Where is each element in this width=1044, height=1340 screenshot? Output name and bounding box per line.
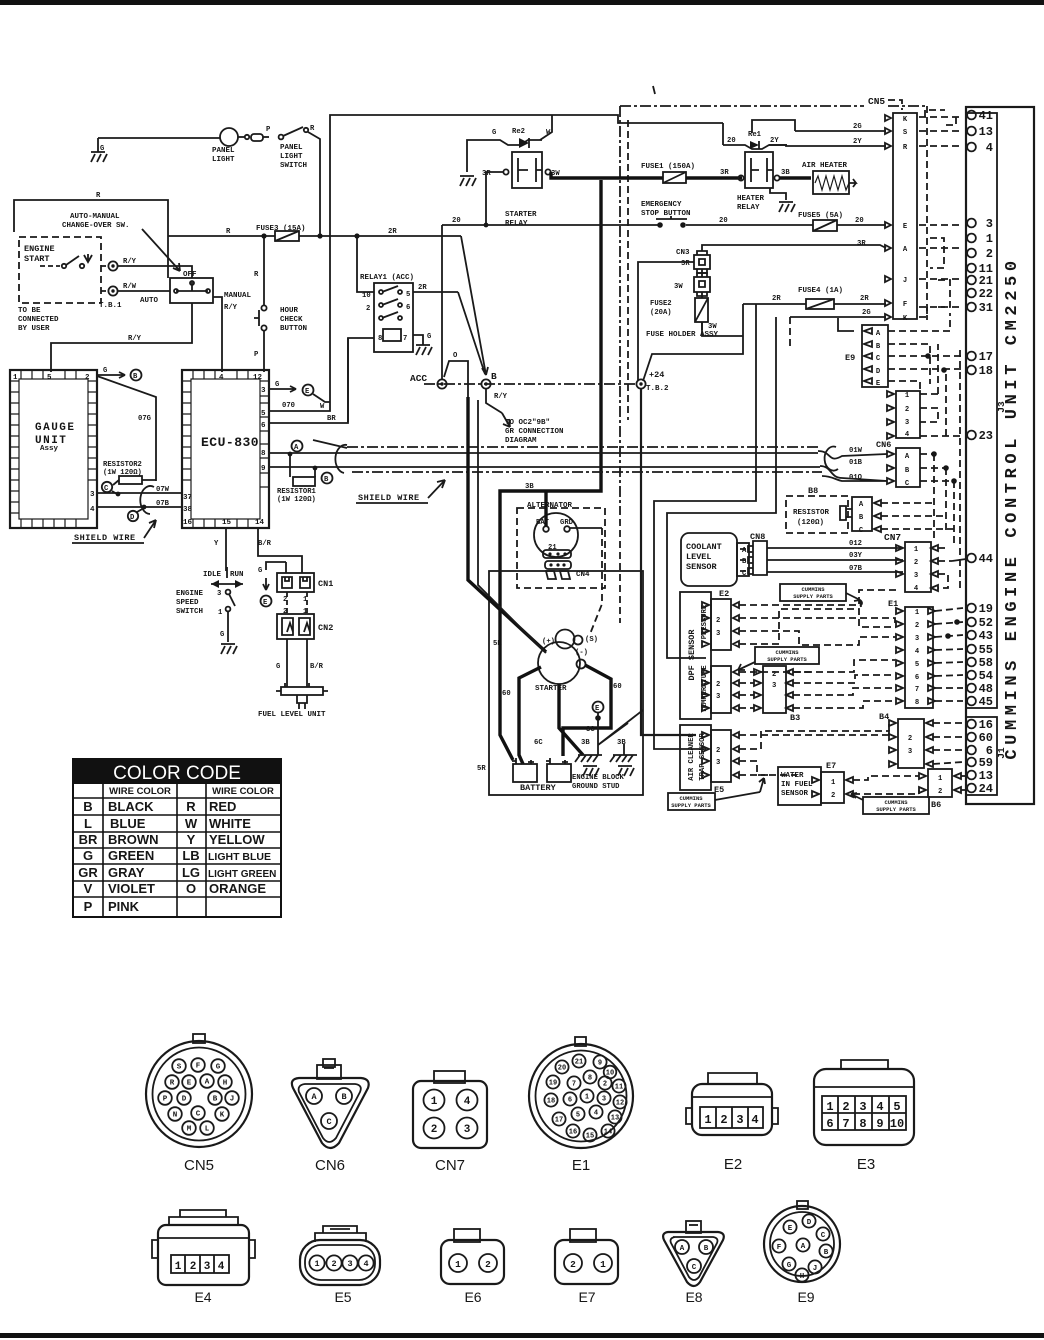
svg-text:2R: 2R bbox=[418, 284, 427, 292]
svg-text:13: 13 bbox=[611, 1115, 619, 1123]
cable twist loop bbox=[818, 451, 887, 481]
svg-text:18: 18 bbox=[979, 364, 993, 378]
svg-text:2G: 2G bbox=[853, 123, 862, 131]
svg-text:3: 3 bbox=[772, 682, 776, 690]
svg-text:17: 17 bbox=[979, 350, 993, 364]
svg-text:G: G bbox=[275, 381, 279, 389]
CN5 to J3 mating dashes bbox=[919, 110, 963, 317]
svg-text:R: R bbox=[96, 192, 101, 200]
wire 2R through fuse4 to CN5 pin F bbox=[743, 303, 886, 305]
svg-text:(1W 120Ω): (1W 120Ω) bbox=[277, 496, 316, 504]
coolant level sensor bbox=[681, 533, 749, 586]
svg-text:20: 20 bbox=[727, 137, 736, 145]
connector 4-pin (below E9) bbox=[887, 391, 920, 439]
motor starter bbox=[535, 630, 598, 694]
svg-text:2Y: 2Y bbox=[770, 137, 779, 145]
connector B6 bbox=[919, 769, 961, 810]
svg-text:R/Y: R/Y bbox=[123, 258, 137, 266]
svg-text:B/R: B/R bbox=[310, 663, 324, 671]
page top border bbox=[0, 0, 1044, 5]
svg-text:3: 3 bbox=[908, 748, 912, 756]
svg-text:Re2: Re2 bbox=[512, 128, 525, 136]
B8 mating dashes bbox=[881, 503, 954, 529]
svg-text:ACC: ACC bbox=[410, 373, 427, 384]
wire emergency line down to ACC bbox=[441, 225, 443, 379]
connector B8 3-pin bbox=[852, 497, 881, 535]
svg-text:012: 012 bbox=[849, 540, 862, 548]
svg-text:5: 5 bbox=[915, 661, 919, 669]
svg-text:RED: RED bbox=[209, 799, 236, 814]
svg-text:SUPPLY PARTS: SUPPLY PARTS bbox=[767, 656, 807, 663]
svg-text:E6: E6 bbox=[464, 1289, 481, 1305]
svg-text:5: 5 bbox=[893, 1100, 900, 1114]
wire ACC jog to feed bbox=[444, 361, 468, 397]
svg-text:YELLOW: YELLOW bbox=[209, 832, 265, 847]
CN6 mating dashes with junctions bbox=[920, 454, 954, 545]
connector E5 pictogram bbox=[300, 1226, 380, 1305]
svg-text:G: G bbox=[427, 333, 431, 341]
svg-text:E1: E1 bbox=[572, 1157, 590, 1174]
wire 20 emergency stop line bbox=[442, 224, 813, 226]
connector E8 pictogram bbox=[663, 1221, 724, 1305]
connector E2 pictogram bbox=[686, 1073, 778, 1173]
svg-text:2: 2 bbox=[190, 1261, 197, 1273]
wires B4 to J1 bbox=[933, 723, 963, 764]
svg-text:18: 18 bbox=[547, 1098, 555, 1106]
harness dashed boundary inner vertical bbox=[627, 120, 629, 420]
E9 left stub wires bbox=[838, 318, 854, 331]
svg-text:FUSE HOLDER ASSY: FUSE HOLDER ASSY bbox=[646, 331, 719, 339]
svg-text:5: 5 bbox=[576, 1112, 580, 1120]
svg-text:CN4: CN4 bbox=[576, 571, 590, 579]
svg-text:2: 2 bbox=[842, 1100, 849, 1114]
svg-text:3B: 3B bbox=[617, 739, 626, 747]
svg-text:L: L bbox=[205, 1126, 210, 1134]
svg-text:A: A bbox=[859, 501, 864, 509]
svg-text:24: 24 bbox=[979, 782, 993, 796]
4-pin mating dashes bbox=[920, 344, 963, 436]
svg-text:(S): (S) bbox=[585, 636, 598, 644]
label to OC2 connection diagram bbox=[502, 413, 564, 445]
wire 01B bbox=[296, 466, 820, 468]
svg-text:RESISTOR1: RESISTOR1 bbox=[277, 488, 317, 496]
svg-text:1: 1 bbox=[455, 1259, 461, 1270]
svg-text:CN1: CN1 bbox=[318, 579, 333, 589]
svg-text:4: 4 bbox=[218, 1261, 225, 1273]
svg-text:31: 31 bbox=[979, 301, 993, 315]
svg-text:T.B.1: T.B.1 bbox=[99, 302, 122, 310]
svg-text:6C: 6C bbox=[534, 739, 543, 747]
svg-text:RELAY: RELAY bbox=[505, 220, 528, 228]
svg-text:3B: 3B bbox=[525, 483, 534, 491]
resistor B8 dashed box bbox=[786, 486, 852, 533]
wire heater coil left supply bbox=[722, 123, 724, 145]
svg-text:COOLANT: COOLANT bbox=[686, 542, 722, 552]
starter battery solid box bbox=[489, 571, 643, 795]
svg-text:P: P bbox=[266, 126, 271, 134]
mating dashes CN1-CN2 bbox=[287, 592, 307, 614]
svg-text:21: 21 bbox=[575, 1059, 583, 1067]
svg-text:07B: 07B bbox=[156, 500, 170, 508]
svg-text:2: 2 bbox=[915, 622, 919, 630]
svg-text:G: G bbox=[100, 145, 104, 153]
svg-text:IDLE: IDLE bbox=[203, 571, 222, 579]
svg-text:3B: 3B bbox=[581, 739, 590, 747]
svg-text:2: 2 bbox=[331, 1259, 336, 1269]
svg-text:ALTERNATOR: ALTERNATOR bbox=[527, 502, 573, 510]
svg-text:B/R: B/R bbox=[258, 540, 272, 548]
svg-text:13: 13 bbox=[979, 125, 993, 139]
svg-text:R/Y: R/Y bbox=[224, 304, 238, 312]
svg-text:D: D bbox=[130, 514, 135, 522]
svg-text:2R: 2R bbox=[772, 295, 781, 303]
connector E2 (schematic) bbox=[702, 589, 739, 650]
svg-text:BLACK: BLACK bbox=[108, 799, 154, 814]
svg-text:1: 1 bbox=[826, 1100, 833, 1114]
svg-text:(-): (-) bbox=[575, 649, 588, 657]
svg-text:CN5: CN5 bbox=[184, 1157, 214, 1174]
svg-text:1: 1 bbox=[175, 1261, 182, 1273]
grid lines bbox=[73, 784, 281, 917]
wire +24 feed down bbox=[641, 389, 696, 735]
svg-text:FUSE4 (1A): FUSE4 (1A) bbox=[798, 287, 843, 295]
svg-text:16: 16 bbox=[569, 1129, 577, 1137]
svg-text:GAUGE: GAUGE bbox=[35, 422, 76, 434]
switch engine speed bbox=[176, 590, 235, 617]
svg-text:CUMMINS: CUMMINS bbox=[775, 649, 799, 656]
svg-text:HOUR: HOUR bbox=[280, 307, 299, 315]
svg-text:58: 58 bbox=[979, 656, 993, 670]
shield arc bbox=[140, 486, 154, 514]
wire ECU pin9 to line B bbox=[269, 466, 296, 468]
wire 07B gauge pin4 to ECU pin38 bbox=[97, 506, 182, 508]
svg-text:GRAY: GRAY bbox=[108, 865, 145, 880]
svg-text:17: 17 bbox=[555, 1117, 563, 1125]
wire 07W gauge pin3 to ECU pin37 bbox=[97, 492, 182, 494]
svg-text:4: 4 bbox=[905, 431, 910, 439]
svg-text:1: 1 bbox=[600, 1259, 606, 1270]
svg-text:20: 20 bbox=[719, 217, 728, 225]
svg-text:B: B bbox=[491, 371, 497, 382]
svg-text:9: 9 bbox=[876, 1117, 883, 1131]
svg-text:E7: E7 bbox=[578, 1289, 595, 1305]
svg-text:3R: 3R bbox=[857, 240, 866, 248]
svg-text:LEVEL: LEVEL bbox=[686, 552, 712, 562]
svg-text:J1: J1 bbox=[996, 747, 1007, 759]
svg-text:20: 20 bbox=[558, 1065, 566, 1073]
svg-text:ECU-830: ECU-830 bbox=[201, 435, 259, 450]
svg-text:52: 52 bbox=[979, 616, 993, 630]
bus dash-dot 24V bbox=[424, 383, 636, 385]
svg-text:R/Y: R/Y bbox=[128, 335, 142, 343]
svg-text:G: G bbox=[216, 1064, 221, 1072]
ECU-830 box with ladder border bbox=[182, 370, 269, 528]
svg-text:D: D bbox=[807, 1219, 812, 1227]
svg-text:A: A bbox=[876, 330, 881, 338]
harness dashed boundary top bbox=[620, 105, 927, 107]
shield arc mid bbox=[335, 445, 347, 473]
svg-text:W: W bbox=[185, 816, 198, 831]
svg-text:7: 7 bbox=[403, 335, 407, 343]
harness dashed boundary left bbox=[619, 106, 621, 508]
svg-text:G: G bbox=[103, 367, 107, 375]
svg-text:K: K bbox=[903, 315, 908, 323]
svg-text:R/Y: R/Y bbox=[494, 393, 508, 401]
connector E1 (schematic) bbox=[888, 599, 935, 708]
svg-text:1: 1 bbox=[431, 1096, 438, 1108]
wire alternator GRD dash to starter bbox=[570, 527, 602, 529]
svg-text:E9: E9 bbox=[797, 1289, 814, 1305]
long dashed loop bus right side bbox=[959, 350, 961, 590]
wire thick fuse1 to heater relay bbox=[686, 176, 742, 179]
svg-text:F: F bbox=[196, 1063, 201, 1071]
svg-text:F: F bbox=[903, 301, 907, 309]
ground (heater relay) bbox=[770, 188, 786, 200]
wire manual to ECU pin4 bbox=[213, 297, 222, 372]
svg-text:CN7: CN7 bbox=[435, 1157, 465, 1174]
svg-text:G: G bbox=[492, 129, 496, 137]
svg-text:WIRE COLOR: WIRE COLOR bbox=[109, 786, 171, 797]
connector CN5 (schematic strip) bbox=[885, 113, 917, 323]
svg-text:B: B bbox=[324, 476, 329, 484]
svg-text:BROWN: BROWN bbox=[108, 832, 159, 847]
svg-text:19: 19 bbox=[979, 602, 993, 616]
wire ECU pin14 down to CN1 bbox=[258, 528, 302, 573]
svg-text:E: E bbox=[187, 1080, 192, 1088]
svg-text:3: 3 bbox=[986, 217, 993, 231]
svg-text:3: 3 bbox=[204, 1261, 211, 1273]
svg-text:SUPPLY PARTS: SUPPLY PARTS bbox=[671, 802, 711, 809]
svg-text:CUMMINS ENGINE CONTROL UNIT CM: CUMMINS ENGINE CONTROL UNIT CM2250 bbox=[1003, 256, 1022, 759]
svg-text:10: 10 bbox=[362, 292, 371, 300]
svg-text:E: E bbox=[263, 599, 268, 607]
switch panel light switch bbox=[266, 125, 315, 170]
svg-text:10: 10 bbox=[606, 1070, 614, 1078]
alternator bbox=[527, 502, 590, 579]
gauge unit box with ladder border bbox=[10, 370, 97, 528]
connector E5 bbox=[702, 730, 739, 795]
svg-text:2: 2 bbox=[716, 617, 720, 625]
ECU outer box CM2250 bbox=[966, 107, 1034, 804]
connector E9 (schematic) bbox=[862, 325, 888, 388]
switch auto-manual change-over bbox=[170, 271, 252, 303]
svg-text:3: 3 bbox=[859, 1100, 866, 1114]
svg-text:10: 10 bbox=[890, 1117, 904, 1131]
svg-text:PANEL: PANEL bbox=[280, 144, 303, 152]
svg-text:2: 2 bbox=[603, 1081, 607, 1089]
svg-text:A: A bbox=[680, 1245, 685, 1253]
svg-text:Y: Y bbox=[214, 540, 219, 548]
svg-text:60: 60 bbox=[613, 683, 622, 691]
wire 3R contact drop bbox=[486, 172, 503, 225]
svg-text:E7: E7 bbox=[826, 761, 836, 771]
svg-text:BUTTON: BUTTON bbox=[280, 325, 307, 333]
wire CN7 pin2 to J3-44 bbox=[952, 559, 966, 561]
svg-text:5: 5 bbox=[261, 410, 266, 418]
svg-text:7: 7 bbox=[842, 1117, 849, 1131]
svg-text:B: B bbox=[876, 343, 881, 351]
svg-text:CUMMINS: CUMMINS bbox=[801, 586, 825, 593]
svg-text:VIOLET: VIOLET bbox=[108, 881, 155, 896]
inline connector pair bbox=[238, 136, 244, 138]
wire CN3 to +24 feed bbox=[638, 262, 694, 380]
svg-text:6: 6 bbox=[568, 1097, 572, 1105]
svg-text:N: N bbox=[173, 1112, 178, 1120]
svg-text:3: 3 bbox=[261, 387, 266, 395]
svg-text:3: 3 bbox=[905, 419, 909, 427]
wire fuse2 to 2R line bbox=[702, 322, 743, 336]
svg-text:D: D bbox=[876, 368, 881, 376]
svg-text:STARTER: STARTER bbox=[505, 211, 537, 219]
svg-text:E3: E3 bbox=[857, 1156, 875, 1173]
wire switch to gauge pin5 bbox=[51, 303, 192, 372]
svg-text:TO BE: TO BE bbox=[18, 307, 41, 315]
connector E2 temperature part bbox=[702, 666, 739, 713]
svg-text:15: 15 bbox=[586, 1133, 594, 1141]
svg-text:3B: 3B bbox=[781, 169, 790, 177]
connector CN7 (schematic) bbox=[884, 532, 938, 593]
svg-text:BR: BR bbox=[327, 415, 336, 423]
svg-text:+24: +24 bbox=[649, 370, 664, 380]
alternator dashed box bbox=[517, 508, 605, 588]
svg-text:E: E bbox=[876, 380, 881, 388]
svg-text:2: 2 bbox=[366, 305, 370, 313]
svg-text:B: B bbox=[905, 467, 910, 475]
label cummins supply parts (top) bbox=[780, 584, 862, 607]
connector E4 pictogram bbox=[152, 1210, 255, 1305]
svg-text:D: D bbox=[182, 1096, 187, 1104]
svg-text:4: 4 bbox=[915, 648, 920, 656]
svg-text:1: 1 bbox=[585, 1094, 589, 1102]
svg-text:DIAGRAM: DIAGRAM bbox=[505, 437, 537, 445]
svg-text:R/W: R/W bbox=[123, 283, 137, 291]
wire 01W bbox=[296, 452, 818, 454]
svg-text:CHECK: CHECK bbox=[280, 316, 303, 324]
svg-text:CN6: CN6 bbox=[315, 1157, 345, 1174]
svg-text:41: 41 bbox=[979, 109, 993, 123]
svg-text:R: R bbox=[310, 125, 315, 133]
svg-text:C: C bbox=[859, 527, 864, 535]
ground (panel light) bbox=[97, 138, 99, 152]
svg-text:2: 2 bbox=[720, 1113, 727, 1127]
svg-text:C: C bbox=[196, 1111, 201, 1119]
svg-text:2: 2 bbox=[716, 747, 720, 755]
node E circle (CN1) bbox=[263, 578, 269, 590]
svg-text:SENSOR: SENSOR bbox=[781, 790, 809, 798]
wire ECU pin15 down bbox=[225, 528, 227, 571]
relay Re2 contact box (starter relay) bbox=[482, 152, 560, 188]
label box AIR CLEANER TRAP SENSOR bbox=[680, 725, 711, 790]
wire panel switch down to fuse line bbox=[308, 132, 320, 236]
fuse F2 (20A) vertical bbox=[650, 292, 717, 331]
fuse F3 (15A) bbox=[256, 225, 306, 241]
tick mark top center bbox=[653, 86, 655, 94]
wire B down to OC2 note bbox=[486, 389, 502, 413]
svg-text:STOP BUTTON: STOP BUTTON bbox=[641, 210, 691, 218]
svg-text:C: C bbox=[821, 1232, 826, 1240]
svg-text:C: C bbox=[742, 570, 747, 578]
svg-text:44: 44 bbox=[979, 552, 993, 566]
svg-text:J3: J3 bbox=[996, 401, 1007, 413]
svg-text:20: 20 bbox=[855, 217, 864, 225]
svg-text:11: 11 bbox=[615, 1084, 623, 1092]
wire 2G to CN5 pin S bbox=[752, 120, 795, 133]
harness trunk verticals bbox=[654, 304, 756, 749]
J3 pin circles and numbers bbox=[967, 109, 993, 709]
connector CN5 pictogram bbox=[146, 1034, 252, 1174]
fuse F1 (150A) bbox=[641, 163, 695, 183]
svg-text:4: 4 bbox=[594, 1110, 598, 1118]
connector E7 pictogram bbox=[555, 1229, 618, 1305]
svg-text:RELAY: RELAY bbox=[737, 204, 760, 212]
svg-text:AUTO-MANUAL: AUTO-MANUAL bbox=[70, 213, 120, 221]
resistor R1 bbox=[277, 452, 317, 504]
wire 2Y to CN5 pin R bbox=[769, 145, 886, 146]
svg-text:F: F bbox=[777, 1244, 782, 1252]
svg-text:Assy: Assy bbox=[40, 445, 59, 453]
wire relay1 bottom left bbox=[348, 338, 374, 422]
wire CN3 3R to CN5 pin A bbox=[702, 245, 886, 251]
svg-text:S: S bbox=[177, 1064, 182, 1072]
junction dots E9 rows bbox=[925, 353, 931, 359]
svg-text:MANUAL: MANUAL bbox=[224, 292, 252, 300]
svg-text:55: 55 bbox=[979, 643, 993, 657]
svg-text:BATTERY: BATTERY bbox=[520, 783, 557, 793]
svg-text:4: 4 bbox=[363, 1259, 368, 1269]
svg-text:EMERGENCY: EMERGENCY bbox=[641, 201, 682, 209]
svg-text:3: 3 bbox=[464, 1124, 471, 1136]
svg-text:6: 6 bbox=[915, 674, 919, 682]
wires E1 to J3 bbox=[935, 608, 963, 701]
wires E2 to E1 dashed bbox=[739, 590, 896, 708]
relay Re2 coil and diode (starter relay) bbox=[478, 128, 551, 148]
svg-text:FUSE5 (5A): FUSE5 (5A) bbox=[798, 212, 843, 220]
svg-text:2: 2 bbox=[431, 1124, 438, 1136]
svg-text:B: B bbox=[341, 1092, 346, 1102]
page bottom border bbox=[0, 1333, 1044, 1338]
svg-text:1: 1 bbox=[986, 232, 993, 246]
svg-text:B: B bbox=[213, 1096, 218, 1104]
lamp panel light bbox=[98, 128, 238, 164]
battery cells bbox=[477, 739, 626, 793]
svg-text:E: E bbox=[305, 388, 310, 396]
svg-text:C: C bbox=[104, 485, 109, 493]
shield wire label (left) bbox=[72, 520, 156, 543]
svg-text:8: 8 bbox=[378, 335, 382, 343]
svg-text:A: A bbox=[294, 444, 299, 452]
svg-text:2G: 2G bbox=[862, 309, 871, 317]
svg-text:PINK: PINK bbox=[108, 899, 140, 914]
svg-text:2: 2 bbox=[986, 247, 993, 261]
wire fuse5 to CN5 pin E bbox=[837, 224, 886, 226]
svg-text:FUEL LEVEL UNIT: FUEL LEVEL UNIT bbox=[258, 711, 326, 719]
svg-text:BY USER: BY USER bbox=[18, 325, 50, 333]
svg-text:2: 2 bbox=[914, 559, 918, 567]
svg-text:LIGHT: LIGHT bbox=[212, 156, 235, 164]
svg-text:B: B bbox=[742, 558, 747, 566]
svg-text:3: 3 bbox=[716, 630, 720, 638]
connector E1 pictogram bbox=[529, 1037, 633, 1174]
svg-text:14: 14 bbox=[255, 519, 265, 527]
svg-text:START: START bbox=[24, 254, 50, 264]
svg-text:RESISTOR2: RESISTOR2 bbox=[103, 461, 142, 469]
svg-text:43: 43 bbox=[979, 629, 993, 643]
svg-text:O: O bbox=[453, 352, 458, 360]
svg-text:SWITCH: SWITCH bbox=[280, 162, 307, 170]
svg-text:E: E bbox=[903, 223, 908, 231]
svg-text:4: 4 bbox=[464, 1096, 471, 1108]
svg-text:5: 5 bbox=[406, 291, 410, 299]
